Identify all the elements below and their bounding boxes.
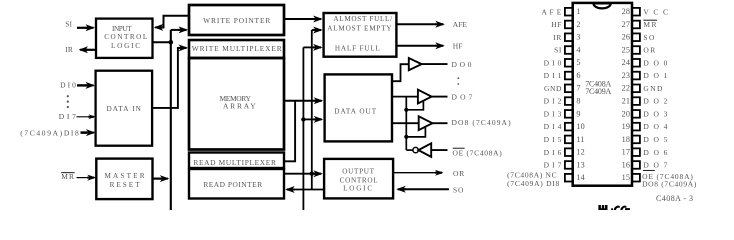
svg-text:ARRAY: ARRAY [223, 102, 257, 111]
pin 2 box [565, 21, 573, 29]
block ALMOST FULL / HALF FULL flag logic [324, 13, 397, 57]
svg-text:7C409A: 7C409A [585, 87, 611, 96]
svg-text:D O 0: D O 0 [643, 58, 668, 67]
package U1 DIP-28 body [573, 3, 632, 186]
wire vertical shift line [170, 30, 172, 210]
wire DO8 output [432, 122, 447, 124]
svg-text:8: 8 [576, 96, 580, 105]
wire DI7 input [77, 116, 91, 118]
svg-text:CONTROL: CONTROL [104, 33, 149, 41]
pin 7 box [565, 85, 573, 93]
svg-text:D I 3: D I 3 [544, 109, 562, 118]
svg-text:4: 4 [576, 45, 580, 54]
svg-text:D O 1: D O 1 [643, 71, 668, 80]
svg-text:MR: MR [643, 20, 657, 29]
junction on shift clock line [169, 40, 174, 45]
pin 12 box [565, 148, 573, 156]
svg-text:READ MULTIPLEXER: READ MULTIPLEXER [193, 158, 276, 167]
block MEMORY ARRAY [189, 58, 284, 150]
wire memory bus branch to read multiplexer [284, 101, 295, 162]
wire input control logic output to junction [153, 41, 171, 43]
pin 8 box [565, 97, 573, 105]
svg-text:D I 6: D I 6 [544, 148, 562, 157]
wire MR input [77, 177, 89, 179]
svg-text:HF: HF [551, 20, 562, 29]
svg-text:ALMOST FULL/: ALMOST FULL/ [333, 15, 392, 23]
svg-text:RESET: RESET [110, 181, 142, 189]
svg-text:GND: GND [643, 84, 663, 93]
svg-text:13: 13 [576, 160, 585, 169]
pin 15 box [632, 174, 640, 182]
svg-text:D I 7: D I 7 [544, 161, 562, 170]
svg-text:OR: OR [453, 169, 465, 178]
svg-text:D O 7: D O 7 [643, 161, 668, 170]
wire data in to write multiplexer [152, 48, 180, 108]
svg-text:(7C409A) DI8: (7C409A) DI8 [507, 179, 560, 188]
svg-text:15: 15 [622, 173, 631, 182]
wire AFE output [396, 23, 436, 25]
pin 24 box [632, 59, 640, 67]
svg-text:D O 6: D O 6 [643, 148, 668, 157]
pin 10 box [565, 123, 573, 131]
wire OE input line [431, 149, 447, 151]
svg-text:5: 5 [576, 58, 580, 67]
svg-text:D O 3: D O 3 [643, 109, 668, 118]
svg-text:READ POINTER: READ POINTER [203, 180, 262, 189]
svg-text:6: 6 [576, 71, 580, 80]
wire DI0 input [77, 84, 87, 86]
svg-text:19: 19 [622, 122, 631, 131]
junction enable to DO8 [404, 135, 408, 139]
pin 19 box [632, 123, 640, 131]
svg-text:D I 7: D I 7 [59, 112, 77, 121]
svg-text:GND: GND [544, 84, 562, 93]
svg-text:D I 0: D I 0 [544, 58, 562, 67]
pin 25 box [632, 46, 640, 54]
ellipsis data-out dots [457, 77, 459, 79]
pin 1 box [565, 8, 573, 16]
buffer DO8 [419, 116, 433, 130]
pin 28 box [632, 8, 640, 16]
wire DI8 input [81, 131, 88, 134]
wire vertical bus V2 read pointer to flag logic [311, 30, 313, 190]
pin 3 box [565, 33, 573, 41]
svg-text:24: 24 [622, 58, 631, 67]
svg-text:A F E: A F E [541, 7, 562, 16]
wire output control logic to read pointer [293, 189, 324, 191]
svg-text:OUTPUT: OUTPUT [342, 168, 375, 176]
svg-text:LOGIC: LOGIC [343, 185, 374, 193]
pin 9 box [565, 110, 573, 118]
pin 20 box [632, 110, 640, 118]
svg-text:14: 14 [576, 173, 585, 182]
svg-text:DATA IN: DATA IN [106, 105, 141, 113]
svg-text:22: 22 [622, 84, 631, 93]
wire HF output [396, 45, 436, 47]
wire write pointer feedback to input control logic [162, 16, 189, 28]
wire memory array to data out [284, 100, 315, 102]
pin 6 box [565, 72, 573, 80]
svg-text:IR: IR [553, 33, 562, 42]
svg-text:AFE: AFE [453, 20, 468, 29]
svg-text:3: 3 [576, 33, 580, 42]
block DATA OUT [325, 74, 392, 141]
wire data out to DO8 buffer [392, 122, 419, 124]
svg-text:1: 1 [576, 7, 580, 16]
svg-text:DO8 (7C409A): DO8 (7C409A) [642, 179, 697, 188]
block DATA IN [96, 71, 153, 146]
svg-text:ALMOST EMPTY: ALMOST EMPTY [327, 24, 392, 32]
pin 27 box [632, 21, 640, 29]
svg-text:D I 0: D I 0 [60, 80, 76, 89]
svg-text:C408A - 3: C408A - 3 [656, 194, 693, 203]
svg-text:23: 23 [622, 71, 631, 80]
wire data out to DO7 buffer [392, 96, 418, 98]
wire DO0 output [422, 63, 448, 65]
svg-text:11: 11 [576, 135, 584, 144]
pin 17 box [632, 148, 640, 156]
svg-text:D O 2: D O 2 [643, 97, 668, 106]
svg-text:26: 26 [622, 33, 631, 42]
junction V2 on read pointer output [310, 172, 314, 176]
svg-text:HF: HF [453, 41, 463, 50]
svg-text:DATA OUT: DATA OUT [334, 107, 377, 115]
svg-text:18: 18 [622, 135, 631, 144]
pin 5 box [565, 59, 573, 67]
package notch [593, 3, 610, 8]
pin 18 box [632, 136, 640, 144]
svg-text:SI: SI [65, 19, 72, 28]
svg-text:D O 4: D O 4 [643, 122, 668, 131]
wire vertical bus V1 half-full [302, 47, 304, 210]
pin 23 box [632, 72, 640, 80]
block WRITE POINTER [189, 5, 284, 35]
svg-text:MR: MR [61, 172, 75, 181]
svg-text:INPUT: INPUT [112, 25, 132, 33]
svg-text:D I 2: D I 2 [544, 97, 562, 106]
pin 26 box [632, 33, 640, 41]
cut-off caption glyphs at bottom edge [598, 205, 629, 210]
svg-text:12: 12 [576, 148, 585, 157]
wire IR output [79, 46, 89, 53]
svg-text:20: 20 [622, 109, 631, 118]
pin 16 box [632, 161, 640, 169]
svg-text:(7C409A)DI8: (7C409A)DI8 [20, 128, 80, 137]
svg-text:SO: SO [643, 33, 655, 42]
svg-text:21: 21 [622, 96, 631, 105]
svg-text:DO8 (7C409A): DO8 (7C409A) [452, 118, 512, 127]
svg-text:28: 28 [622, 7, 631, 16]
pin 11 box [565, 136, 573, 144]
inverter U-OE bubble [413, 147, 418, 152]
buffer DO7 [418, 90, 432, 104]
junction enable to DO7 [404, 108, 408, 112]
pin 21 box [632, 97, 640, 105]
block WRITE MULTIPLEXER [189, 40, 284, 58]
svg-text:17: 17 [622, 148, 631, 157]
block INPUT CONTROL LOGIC [96, 19, 153, 58]
wire arrow into write pointer [171, 29, 180, 31]
wire read pointer to output control logic [284, 173, 315, 175]
svg-text:D O 0: D O 0 [452, 60, 472, 69]
block READ POINTER [189, 169, 284, 199]
block OUTPUT CONTROL LOGIC [324, 159, 393, 199]
svg-text:LOGIC: LOGIC [111, 42, 142, 50]
svg-text:SI: SI [554, 46, 562, 55]
svg-text:10: 10 [576, 122, 585, 131]
buffer DO0 [409, 58, 422, 70]
junction V1 to data out [301, 117, 305, 121]
pin 13 box [565, 161, 573, 169]
inverter U-OE triangle [418, 143, 431, 157]
svg-text:D I 4: D I 4 [544, 122, 562, 131]
wire master reset output [153, 178, 162, 180]
svg-text:D O 7: D O 7 [452, 93, 474, 102]
svg-text:IR: IR [65, 45, 73, 54]
wire output enable distribution line [405, 97, 407, 151]
ellipsis data-in dots [67, 95, 69, 97]
svg-text:16: 16 [622, 160, 631, 169]
svg-text:7: 7 [576, 84, 580, 93]
wire DO7 output [432, 96, 448, 98]
svg-text:MASTER: MASTER [105, 172, 147, 180]
svg-text:D I 5: D I 5 [544, 135, 562, 144]
svg-text:SO: SO [453, 185, 464, 194]
svg-text:9: 9 [576, 109, 580, 118]
wire SO input [396, 186, 406, 193]
svg-text:OR: OR [643, 46, 656, 55]
wire enable to inverter bubble [406, 149, 413, 151]
block READ MULTIPLEXER [189, 153, 284, 169]
svg-text:CONTROL: CONTROL [340, 176, 379, 184]
svg-text:25: 25 [622, 45, 631, 54]
svg-text:D O 5: D O 5 [643, 135, 668, 144]
wire write pointer to flag logic [284, 18, 314, 20]
svg-text:27: 27 [622, 20, 631, 29]
block MASTER RESET [96, 159, 152, 200]
wire data out to DO0 buffer [392, 64, 409, 81]
svg-text:HALF FULL: HALF FULL [335, 45, 381, 53]
pin 14 box [565, 174, 573, 182]
svg-text:WRITE POINTER: WRITE POINTER [203, 16, 271, 25]
wire OR output [393, 172, 435, 174]
pin 4 box [565, 46, 573, 54]
svg-text:WRITE MULTIPLEXER: WRITE MULTIPLEXER [192, 44, 283, 53]
pin 22 box [632, 85, 640, 93]
svg-text:OE (7C408A): OE (7C408A) [453, 148, 503, 157]
wire SI input [77, 27, 88, 29]
svg-text:V C C: V C C [643, 7, 669, 16]
svg-text:2: 2 [576, 20, 580, 29]
svg-text:D I 1: D I 1 [544, 71, 562, 80]
